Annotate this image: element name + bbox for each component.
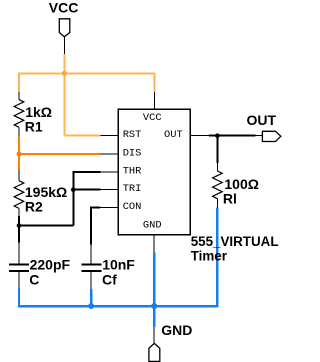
wire VCC terminal pin (63, 37, 65, 54)
wire C bottom pin stub (18, 272, 20, 289)
svg-text:CON: CON (123, 201, 142, 213)
wire OUT net down to Rl (216, 136, 218, 164)
wire chip VCC pin stub (154, 92, 156, 109)
svg-text:555_VIRTUAL: 555_VIRTUAL (191, 234, 279, 249)
wire R2 bottom to junction (18, 216, 20, 226)
wire OUT terminal pin stub (256, 135, 263, 137)
svg-text:VCC: VCC (143, 112, 162, 124)
wire CON horizontal (90, 207, 100, 209)
label 555 VIRTUAL Timer (191, 234, 279, 264)
wire CON pin stub (100, 207, 118, 209)
wire THR/TRI vertical (72, 171, 74, 225)
op-amp U1 555 chip body (118, 109, 190, 235)
wire VCC down to RST row (63, 73, 65, 135)
svg-text:THR: THR (123, 166, 142, 178)
svg-text:10nF: 10nF (102, 257, 135, 273)
wire VCC bus horizontal (18, 72, 156, 74)
wire DIS pin stub (101, 153, 119, 155)
wire TRI horizontal (73, 189, 100, 191)
wire Cf top pin stub (90, 245, 92, 264)
wire junction horizontal to THR/TRI (19, 225, 73, 227)
wire DIS net R1 to junction (18, 136, 20, 169)
node TRI junction (71, 187, 76, 192)
node R2/C/THR junction (17, 223, 22, 228)
wire GND bus horizontal (18, 305, 218, 307)
GND terminal (149, 322, 193, 362)
capacitor C (9, 257, 70, 288)
svg-text:OUT: OUT (164, 129, 183, 141)
svg-text:R1: R1 (25, 118, 43, 134)
svg-text:RST: RST (123, 129, 142, 141)
wire VCC down to chip VCC pin (154, 72, 156, 92)
svg-text:GND: GND (143, 220, 162, 232)
node VCC junction (62, 71, 67, 76)
node GND Cf junction (88, 303, 94, 309)
wire RST pin stub (100, 135, 118, 137)
wire Rl top pin stub (216, 163, 218, 171)
wire OUT net horizontal (209, 135, 256, 137)
svg-text:GND: GND (161, 322, 192, 338)
wire TRI pin stub (100, 189, 118, 191)
wire CON vertical down to Cf (90, 207, 92, 245)
wire GND net chip to bus (153, 252, 155, 306)
svg-text:Timer: Timer (191, 248, 228, 263)
wire OUT pin stub (190, 135, 209, 137)
wire DIS net horizontal (19, 153, 101, 155)
OUT terminal (247, 112, 281, 142)
node OUT junction (215, 133, 220, 138)
wire Cf bottom pin stub (90, 272, 92, 289)
resistor R2 (14, 169, 67, 216)
svg-text:VCC: VCC (49, 0, 79, 15)
svg-text:TRI: TRI (123, 183, 142, 195)
svg-text:Rl: Rl (223, 190, 237, 206)
svg-text:220pF: 220pF (30, 257, 71, 273)
svg-text:OUT: OUT (247, 112, 277, 128)
wire GND net Cf to bus (90, 289, 92, 306)
wire VCC net vertical to bus (63, 54, 65, 73)
resistor R1 (14, 92, 52, 136)
svg-text:R2: R2 (25, 198, 43, 214)
resistor Rl (213, 171, 259, 208)
wire VCC to R1 (18, 72, 20, 92)
wire THR pin stub (100, 171, 118, 173)
svg-text:C: C (29, 272, 39, 288)
wire GND terminal pin (153, 327, 155, 344)
node GND junction (151, 303, 157, 309)
wire GND chip pin stub (153, 235, 155, 253)
node DIS junction (17, 152, 22, 157)
wire GND net bus to terminal (153, 306, 155, 327)
wire junction down to C (18, 226, 20, 243)
wire GND net right vertical up to Rl (216, 208, 218, 308)
wire VCC to RST pin (64, 135, 100, 137)
svg-text:DIS: DIS (123, 148, 142, 160)
svg-text:100Ω: 100Ω (224, 176, 259, 192)
wire C top pin stub (18, 243, 20, 264)
VCC terminal (49, 0, 79, 37)
svg-text:Cf: Cf (102, 272, 117, 288)
wire THR horizontal (73, 171, 100, 173)
capacitor Cf (82, 257, 136, 288)
wire GND net C to bus (18, 289, 20, 306)
